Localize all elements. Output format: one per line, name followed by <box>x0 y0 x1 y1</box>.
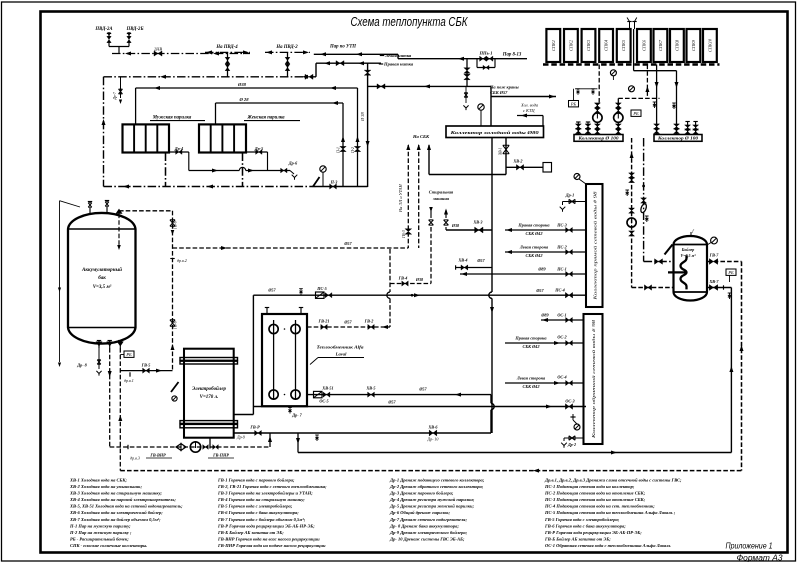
valve below solar pump <box>629 231 635 236</box>
svg-text:ХВ-5: ХВ-5 <box>365 386 375 391</box>
tank top fitting 2 <box>106 207 108 213</box>
svg-text:V=170 л.: V=170 л. <box>200 395 219 400</box>
sink box <box>543 163 552 173</box>
vent under branch <box>465 86 467 103</box>
svg-text:др.в.1: др.в.1 <box>124 378 134 383</box>
svg-text:ХВ-4: ХВ-4 <box>457 258 467 263</box>
svg-text:П-3: П-3 <box>330 180 338 185</box>
valve П-1 <box>340 146 346 151</box>
svg-text:Ø89: Ø89 <box>540 313 549 318</box>
solar panel СПК9 <box>687 29 701 62</box>
svg-text:др.в.3: др.в.3 <box>130 456 140 461</box>
expansion line solar <box>575 88 597 90</box>
wire П-3 branch <box>314 186 368 188</box>
valve П-2 <box>354 146 360 151</box>
svg-text:Ø38: Ø38 <box>415 277 424 282</box>
svg-text:ГВ-2: ГВ-2 <box>364 319 374 324</box>
gauge solar 2 <box>629 86 635 92</box>
wire ПС-3 <box>505 229 586 231</box>
svg-text:ПС-4 Подающая сетевая вода на: ПС-4 Подающая сетевая вода на сет. тепло… <box>544 504 655 509</box>
svg-text:ХВ-7 Холодная вода на бойлер о: ХВ-7 Холодная вода на бойлер объемом 0,5… <box>69 517 161 522</box>
svg-text:СПК9: СПК9 <box>691 39 696 51</box>
solar panel СПК10 <box>703 29 717 62</box>
svg-text:ХВ-1: ХВ-1 <box>499 147 503 156</box>
tank bottom fitting Др-8 <box>98 341 100 348</box>
svg-text:П-1: П-1 <box>337 147 341 154</box>
vent Др-7 <box>288 407 292 409</box>
svg-text:Электробойлер: Электробойлер <box>192 386 226 392</box>
solar panel СПК2 <box>564 29 578 62</box>
wire ПС-5 <box>253 294 586 296</box>
svg-text:Др-9: Др-9 <box>236 435 245 440</box>
pump solar 1 <box>593 113 602 122</box>
wire solar gap pipe <box>633 29 635 71</box>
svg-text:ГВ-3 Горячая вода на электробо: ГВ-3 Горячая вода на электробойлеры и УТ… <box>217 491 313 496</box>
wire ГВ-6 drop <box>172 211 174 371</box>
svg-text:др.в.2: др.в.2 <box>177 258 187 263</box>
label др.в.1 <box>129 372 131 376</box>
wire solar to boiler lower <box>632 287 674 289</box>
svg-text:ГВ-Б Бойлер АБ запитка от ЭБ;: ГВ-Б Бойлер АБ запитка от ЭБ; <box>217 530 284 535</box>
boiler coil <box>668 255 687 289</box>
valves on solar supply <box>629 173 635 178</box>
solar panel СПК3 <box>582 29 596 62</box>
svg-text:ПВД-2А: ПВД-2А <box>94 27 112 32</box>
valves above box 2b <box>674 124 680 129</box>
valve ХВ-4 <box>461 265 468 270</box>
vent on ХВ-6 line <box>315 434 319 436</box>
wire ХВ-51 ХВ-5 <box>307 394 491 396</box>
svg-text:СПК7: СПК7 <box>658 39 663 51</box>
wire ПС-2 <box>505 251 586 253</box>
svg-text:Коллектор прямой сетевой воды: Коллектор прямой сетевой воды # 98 <box>593 192 598 302</box>
svg-text:ППь-1: ППь-1 <box>478 51 492 56</box>
svg-text:ПС-1 Подающая сетевая вода на: ПС-1 Подающая сетевая вода на коллектор; <box>544 484 635 489</box>
valve Др-4 <box>169 151 189 153</box>
wire HX left wrap <box>252 295 254 406</box>
tank vent line <box>59 201 61 362</box>
svg-text:Др-1: Др-1 <box>565 193 574 198</box>
solar panel СПК7 <box>654 29 668 62</box>
valves below pump 2 <box>617 122 619 134</box>
radiator мужская парилка <box>123 124 170 152</box>
svg-text:Др- 7: Др- 7 <box>291 413 302 418</box>
svg-text:Пар по УТП: Пар по УТП <box>329 45 356 50</box>
svg-text:2НВ: 2НВ <box>154 47 162 52</box>
svg-text:бак: бак <box>98 276 106 281</box>
svg-text:Правая сторона: Правая сторона <box>517 223 550 228</box>
vent Др-7 top <box>120 77 122 98</box>
valve ХВ-3 <box>475 227 483 233</box>
wire ХВ-3 <box>446 229 492 231</box>
wire ГВ-21 <box>307 326 390 328</box>
wire radiator2 condensate drop <box>242 153 244 187</box>
thermometer boiler <box>665 245 673 255</box>
valve Др-5 <box>246 151 267 153</box>
svg-text:Ø57: Ø57 <box>267 288 276 293</box>
electroboiler top flange <box>180 358 238 361</box>
wire ПС-1 <box>460 273 586 275</box>
svg-text:ГВ-Р Горячая вода рециркуляции: ГВ-Р Горячая вода рециркуляции ЭБ-АБ-НР-… <box>217 523 315 528</box>
svg-text:ГВ-5: ГВ-5 <box>141 363 151 368</box>
svg-text:ГВ-7: ГВ-7 <box>709 253 720 258</box>
valves at recirc pump <box>203 445 209 450</box>
svg-text:ПС-4: ПС-4 <box>554 288 565 293</box>
wire hot water riser right <box>730 288 732 453</box>
wire parilka drain <box>189 170 240 172</box>
svg-text:ГВ-ПНР: ГВ-ПНР <box>212 453 229 458</box>
svg-text:П-1 Пар на мужскую парилку;: П-1 Пар на мужскую парилку; <box>69 523 131 528</box>
wire Ø28 loop <box>216 102 344 104</box>
collector холодной воды <box>446 126 544 138</box>
svg-text:Коллектор Ø 100: Коллектор Ø 100 <box>657 137 698 141</box>
svg-text:V=3,5 м³: V=3,5 м³ <box>93 284 112 290</box>
valve solar to boiler <box>644 285 651 290</box>
wire solar supply down <box>631 138 633 288</box>
svg-text:Ø57: Ø57 <box>387 400 396 405</box>
valve on правая нитка <box>336 61 344 66</box>
collector 2 drain <box>570 416 575 418</box>
svg-text:ГВ-3: ГВ-3 <box>402 230 406 239</box>
svg-text:Правая нитка: Правая нитка <box>383 62 414 67</box>
stub стиральная 1 <box>430 208 432 218</box>
heat exchanger Alfa Laval <box>262 314 307 406</box>
wire ГВ-4 <box>390 283 431 285</box>
wire solar drop 5 <box>676 71 678 124</box>
wire steam drop to collector <box>466 59 468 87</box>
wire правая нитка <box>316 62 381 64</box>
valve on solar return <box>641 198 647 203</box>
wire solar return to boiler upper <box>644 261 674 263</box>
svg-text:Хол. вода: Хол. вода <box>520 103 539 108</box>
svg-text:Др-9 Дренаж электрического бой: Др-9 Дренаж электрического бойлера; <box>389 530 468 535</box>
radiator женская парилка <box>199 124 246 152</box>
svg-text:ГВ-ПНР Горячая вода на подаче: ГВ-ПНР Горячая вода на подаче насоса рец… <box>217 543 326 548</box>
wire ГВ-Б into tank <box>118 214 120 248</box>
wire ОС-1 <box>541 319 584 321</box>
svg-text:СПК6: СПК6 <box>641 39 646 51</box>
svg-text:ОС-4: ОС-4 <box>557 375 566 380</box>
svg-text:Формат А3: Формат А3 <box>737 554 784 563</box>
svg-text:Ø 38: Ø 38 <box>360 112 365 122</box>
wire ГВ riser на ЭЛ 1 <box>407 145 409 248</box>
svg-text:СБК Ø42: СБК Ø42 <box>526 231 544 236</box>
svg-text:Ø38: Ø38 <box>451 223 460 228</box>
svg-text:ГВ-5 Горячая вода с электробой: ГВ-5 Горячая вода с электробойлера; <box>544 517 620 522</box>
valve under collector <box>503 145 509 153</box>
tank bottom fitting 3 <box>119 341 121 348</box>
wire solar drop 3 <box>646 65 648 99</box>
valve ГВ-3 <box>405 229 412 235</box>
svg-text:Левая сторона: Левая сторона <box>519 245 549 250</box>
wire steam riser x367 <box>367 63 369 187</box>
wire solar drop 4 <box>656 65 658 125</box>
svg-text:СПК1: СПК1 <box>551 40 556 51</box>
svg-text:П-2 Пар на женскую парилку ;: П-2 Пар на женскую парилку ; <box>69 530 132 535</box>
valve 2НВ <box>154 51 162 56</box>
svg-text:СПК10: СПК10 <box>707 38 712 52</box>
svg-text:ХВ-1 Холодная вода на СБК;: ХВ-1 Холодная вода на СБК; <box>69 478 127 483</box>
pump solar 2 <box>614 113 623 122</box>
wire умывальник line <box>506 166 543 168</box>
svg-text:машина: машина <box>432 196 450 201</box>
wire solar drop 2 <box>617 98 619 103</box>
svg-text:РБ: РБ <box>125 352 132 357</box>
wire main condensate header <box>104 76 317 78</box>
svg-text:Др- 10: Др- 10 <box>427 437 439 442</box>
wire steam line 2НВ <box>112 53 250 55</box>
thermometer П-3 <box>313 177 320 187</box>
svg-text:ГВ-5 Горячая вода с электробой: ГВ-5 Горячая вода с электробойлера; <box>217 504 293 509</box>
svg-text:ОС-3: ОС-3 <box>565 399 574 404</box>
svg-text:Аккумуляторный: Аккумуляторный <box>81 267 122 273</box>
svg-text:СПК8: СПК8 <box>674 39 679 51</box>
svg-text:Др- 10 Дренаж системы ГВС ЭБ-: Др- 10 Дренаж системы ГВС ЭБ-АБ; <box>389 537 465 542</box>
svg-text:ПС-5 Подающая сетевая вода на: ПС-5 Подающая сетевая вода на теплообмен… <box>544 510 676 515</box>
electroboiler body <box>184 349 234 438</box>
wire ОС-5 <box>253 406 586 408</box>
svg-text:Ø89: Ø89 <box>537 267 546 272</box>
svg-text:ХВ-3 Холодная вода на стиральн: ХВ-3 Холодная вода на стиральную машинку… <box>69 491 162 496</box>
valve ПВД-2А <box>107 33 111 35</box>
solar header bar <box>543 63 720 65</box>
HX top stubs <box>266 308 268 315</box>
svg-text:Др.в.1, Др.в.2, Др.в.3 Дренажи: Др.в.1, Др.в.2, Др.в.3 Дренажи слива отс… <box>544 478 682 483</box>
svg-text:На ПВД-4: На ПВД-4 <box>215 45 238 50</box>
wire ГВ header dashed <box>173 247 409 249</box>
wire solar return down <box>643 138 645 262</box>
wire branch to fire taps <box>368 85 491 87</box>
label др.в.2 <box>170 258 174 260</box>
svg-text:Ø57: Ø57 <box>535 288 544 293</box>
svg-text:Ø57: Ø57 <box>343 320 352 325</box>
wire ПВД header <box>109 46 129 48</box>
svg-text:ХВ-5, ХВ-51 Холодная вода на с: ХВ-5, ХВ-51 Холодная вода на сетевой вод… <box>69 504 183 509</box>
svg-text:Др-2: Др-2 <box>567 442 576 447</box>
wire ГВ riser на ЭЛ 2 <box>418 145 420 248</box>
svg-text:СПК5: СПК5 <box>621 39 626 51</box>
valve on riser <box>364 70 371 75</box>
svg-text:Др- 8: Др- 8 <box>76 363 87 368</box>
wire main cold riser <box>491 138 493 293</box>
svg-text:ПС-3 Подающая сетевая вода на: ПС-3 Подающая сетевая вода на отопление … <box>544 497 646 502</box>
wire condensate return <box>104 186 314 188</box>
svg-text:Ø57: Ø57 <box>476 258 485 263</box>
svg-text:ОС-2: ОС-2 <box>557 335 566 340</box>
svg-text:ГВ-ВНР Горячая вода на всас на: ГВ-ВНР Горячая вода на всас насоса рецир… <box>217 537 320 542</box>
svg-text:Пар 8-13: Пар 8-13 <box>502 53 522 58</box>
drain Др-2 <box>564 437 584 439</box>
svg-text:РБ - Расширительный бачек;: РБ - Расширительный бачек; <box>70 537 129 542</box>
svg-text:ГВ-2, ГВ-21 Горячая вода с сет: ГВ-2, ГВ-21 Горячая вода с сетевого тепл… <box>217 484 327 489</box>
wire hot return line <box>298 452 731 454</box>
svg-text:ГВ-ВНР: ГВ-ВНР <box>149 453 166 458</box>
svg-text:СПК - плоские солнечные коллек: СПК - плоские солнечные коллекторы. <box>70 543 147 548</box>
svg-text:ХВ-6: ХВ-6 <box>427 425 438 430</box>
wire loop right side <box>741 262 743 471</box>
svg-text:СБК Ø42: СБК Ø42 <box>526 253 544 258</box>
valves На ПВД-2 <box>285 57 290 63</box>
wire radiator1 condensate drop <box>165 153 167 187</box>
tank inlet nozzle <box>116 209 123 214</box>
collector обратной сетевой воды <box>584 314 603 444</box>
wire solar drop 1 <box>598 65 600 104</box>
wire ГВ-5 <box>120 370 172 372</box>
valve ГВ-6 lower <box>170 320 175 326</box>
svg-text:РБ: РБ <box>570 102 577 107</box>
svg-text:РБ: РБ <box>727 270 734 275</box>
svg-text:Бойлер: Бойлер <box>681 247 695 252</box>
svg-text:Ø 28: Ø 28 <box>238 97 249 102</box>
svg-text:Правая сторона: Правая сторона <box>514 336 547 341</box>
svg-text:ГВ-7 Горячая вода с бойлера об: ГВ-7 Горячая вода с бойлера объемом 0,5м… <box>217 517 306 522</box>
svg-text:ГВ-6: ГВ-6 <box>174 321 178 330</box>
valves above pump 2 <box>615 103 621 108</box>
gauge boiler <box>711 237 718 244</box>
svg-text:ГВ-Б Бойлер АБ запитка от ЭБ;: ГВ-Б Бойлер АБ запитка от ЭБ; <box>544 537 611 542</box>
boiler 0.5 <box>674 236 708 301</box>
РБ box at tank <box>120 354 124 356</box>
svg-text:ХВ-7: ХВ-7 <box>708 279 719 284</box>
wire tank top to ГВ-6 drop <box>119 210 173 212</box>
valve on branch <box>377 84 385 89</box>
svg-text:ХВ-2: ХВ-2 <box>512 159 522 164</box>
solar panel СПК4 <box>599 29 613 62</box>
valve ХВ-2 <box>516 165 523 171</box>
svg-text:ОС-1 Обратная сетевая вода с т: ОС-1 Обратная сетевая вода с теплообменн… <box>545 543 671 548</box>
svg-text:ПС-2: ПС-2 <box>556 245 567 250</box>
svg-text:Laval: Laval <box>335 352 347 357</box>
wire На ПВД-4 <box>205 51 250 53</box>
svg-text:Др-5 Дренаж регистра женской п: Др-5 Дренаж регистра женской парилки; <box>389 504 475 509</box>
svg-text:Стиральная: Стиральная <box>429 190 454 195</box>
drain Y after Др-6 <box>290 171 294 175</box>
svg-text:ОС-1: ОС-1 <box>557 313 566 318</box>
svg-text:ХВ-6 Холодная вода на электрич: ХВ-6 Холодная вода на электрический бойл… <box>69 510 163 515</box>
svg-text:Мужская парилка: Мужская парилка <box>152 116 192 121</box>
wire recirculation <box>110 446 270 448</box>
boiler flag <box>690 232 692 237</box>
wire Ø38 loop <box>136 87 358 89</box>
wire ГВ riser <box>389 249 391 292</box>
svg-text:Женская парилка: Женская парилка <box>246 116 285 121</box>
svg-text:ОС-5: ОС-5 <box>319 399 328 404</box>
wire to fire taps <box>490 86 492 126</box>
valve ГВ-5 <box>143 368 150 373</box>
wire cold water from КТЦ <box>517 115 543 117</box>
wire condensate riser <box>103 77 105 187</box>
svg-text:СБК Ø42: СБК Ø42 <box>523 344 541 349</box>
svg-text:Левая сторона: Левая сторона <box>516 376 546 381</box>
svg-text:Левая нитка: Левая нитка <box>384 53 412 58</box>
svg-text:ГВ-1 Горячая вода с парового б: ГВ-1 Горячая вода с парового бойлера; <box>217 478 295 483</box>
svg-text:СПК2: СПК2 <box>568 39 573 51</box>
svg-text:Ø57: Ø57 <box>418 387 427 392</box>
svg-text:Др-7 Дренаж сетевого подогрева: Др-7 Дренаж сетевого подогревателя; <box>389 517 467 522</box>
wire ОС-2 <box>505 342 584 344</box>
solar panel СПК8 <box>670 29 684 62</box>
solar panel СПК1 <box>546 29 560 62</box>
svg-text:ГВ-21: ГВ-21 <box>318 319 330 324</box>
svg-text:СПК4: СПК4 <box>604 39 609 51</box>
svg-text:Др-6: Др-6 <box>288 161 298 166</box>
svg-text:ПС-5: ПС-5 <box>316 286 327 291</box>
svg-text:ГВ-4: ГВ-4 <box>398 276 408 281</box>
svg-text:ХВ-51: ХВ-51 <box>321 386 333 391</box>
wire ЭБ bottom drop <box>209 438 211 449</box>
svg-text:На ЭЛ и УТАН: На ЭЛ и УТАН <box>398 184 403 213</box>
gauge solar 1 <box>610 70 616 76</box>
tank bottom fitting 2 <box>109 341 111 348</box>
collector прямой сетевой воды <box>586 184 603 307</box>
solar panel СПК6 <box>637 29 651 62</box>
svg-text:Др-6 Общий дренаж парилок;: Др-6 Общий дренаж парилок; <box>389 510 451 515</box>
tank top fitting 1 <box>89 208 91 214</box>
solar vents <box>629 22 631 30</box>
svg-text:Коллектор холодной воды Ø80: Коллектор холодной воды Ø80 <box>449 130 540 135</box>
РБ solar 1 <box>573 89 575 101</box>
wire ЭБ outlet to ОС-5 <box>234 414 254 416</box>
gauge ЭБ <box>172 396 177 401</box>
РБ solar 2 <box>631 110 641 116</box>
wire ОС-4 <box>505 382 584 384</box>
svg-text:ПС-2 Подающая сетевая вода на: ПС-2 Подающая сетевая вода на отопление … <box>544 491 646 496</box>
svg-text:Др-1 Дренаж подающего сетевого: Др-1 Дренаж подающего сетевого коллектор… <box>389 478 485 483</box>
svg-text:Коллектор обратной сетевой вод: Коллектор обратной сетевой воды # 98 <box>591 320 596 440</box>
svg-text:На СБК: На СБК <box>412 134 430 139</box>
svg-text:ПВД-2Б: ПВД-2Б <box>126 27 144 32</box>
svg-text:СПК3: СПК3 <box>586 40 591 51</box>
wire ХВ-4 <box>456 267 492 269</box>
gauge on cold collector <box>478 104 484 110</box>
gauge on collector 1 <box>574 174 580 180</box>
pump solar loop <box>627 218 636 227</box>
svg-text:с КТЦ: с КТЦ <box>523 108 535 113</box>
svg-text:Теплообменник Alfa: Теплообменник Alfa <box>317 345 365 350</box>
valves below pump 1 <box>596 122 598 134</box>
svg-text:ГВ-6 Горячая вода с бака аккум: ГВ-6 Горячая вода с бака аккумулятора; <box>217 510 299 515</box>
accumulator tank <box>68 213 136 344</box>
svg-text:ГВ-Р: ГВ-Р <box>249 425 260 430</box>
collector box solar 2 <box>654 135 702 142</box>
svg-text:Ø57: Ø57 <box>343 241 352 246</box>
collector box solar 1 <box>574 135 623 142</box>
svg-text:V=0,5 м³: V=0,5 м³ <box>681 253 697 258</box>
svg-text:Коллектор Ø 100: Коллектор Ø 100 <box>577 137 618 141</box>
valve ГВ-6 upper <box>170 220 175 226</box>
wire solar dashed header <box>618 97 659 99</box>
svg-text:ПС-1: ПС-1 <box>556 267 567 272</box>
svg-text:ХВ-4 Холодная вода на паровой: ХВ-4 Холодная вода на паровой электронаг… <box>69 497 176 502</box>
solar panel СПК5 <box>617 29 631 62</box>
valve on header <box>305 74 313 79</box>
stub стиральная 2 <box>445 210 447 218</box>
valve ПВД-2Б <box>127 33 131 35</box>
electroboiler bottom flange <box>180 421 238 424</box>
valve П-3 <box>330 184 337 189</box>
thermometer ЭБ <box>171 382 179 392</box>
vent on ПС-5 <box>299 288 303 290</box>
svg-text:На пож краны: На пож краны <box>489 85 519 90</box>
svg-text:ГВ-4 Горячая вода на стиральну: ГВ-4 Горячая вода на стиральную машину; <box>217 497 305 502</box>
svg-text:Приложение 1: Приложение 1 <box>726 542 773 551</box>
valves above pump 1 <box>594 103 600 108</box>
svg-text:ГВ-6: ГВ-6 <box>174 221 178 230</box>
wire ХВ-6 line <box>234 432 491 434</box>
wire cold drop to ХВ-6 line <box>490 395 492 404</box>
svg-text:П-2: П-2 <box>351 147 355 154</box>
svg-text:ПС-3: ПС-3 <box>556 223 567 228</box>
